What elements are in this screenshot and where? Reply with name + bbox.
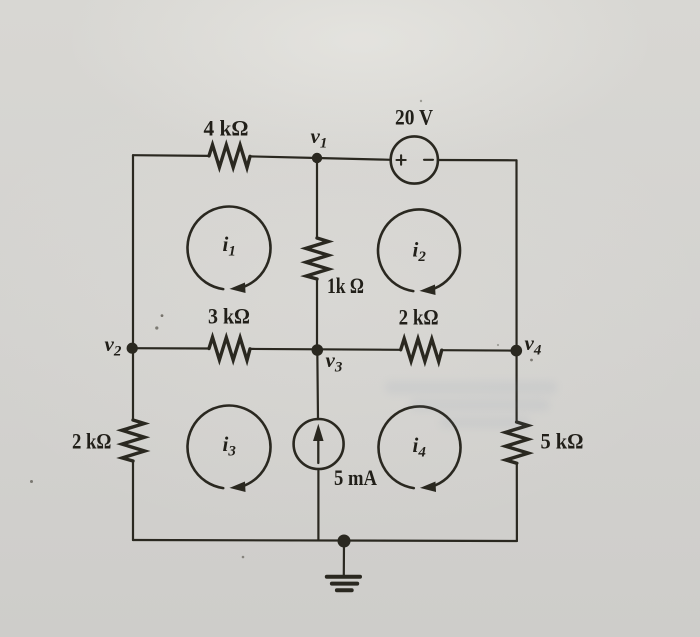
- mesh i1 arrowhead: [231, 283, 245, 292]
- mesh current loop i4 arc: [378, 406, 460, 488]
- paper speck: [530, 359, 533, 362]
- current source I1 circle: [294, 419, 344, 469]
- wire right vertical upper: [515, 160, 517, 422]
- minus sign inside source: [424, 159, 433, 161]
- ground stem: [343, 541, 345, 576]
- wire top middle: [250, 156, 317, 158]
- mesh i3 arrowhead: [231, 482, 245, 491]
- svg-text:v2: v2: [105, 332, 122, 360]
- svg-text:4 kΩ: 4 kΩ: [204, 115, 249, 140]
- resistor R 5k (right) zigzag: [505, 422, 528, 463]
- node v1 dot: [312, 153, 322, 163]
- paper speck: [30, 480, 33, 483]
- wire middle-left horizontal: [132, 347, 209, 349]
- svg-text:i3: i3: [223, 432, 237, 460]
- ground bar 3: [337, 588, 352, 592]
- ghost ink bleed-through: [385, 381, 557, 428]
- wire middle-right horizontal: [442, 349, 517, 352]
- wire middle center horizontal: [250, 348, 401, 351]
- ground bar 2: [332, 582, 357, 586]
- resistor R 1k zigzag: [306, 238, 329, 279]
- svg-text:5 kΩ: 5 kΩ: [541, 429, 584, 454]
- svg-text:2 kΩ: 2 kΩ: [399, 305, 439, 330]
- svg-text:v3: v3: [326, 348, 343, 376]
- plus sign inside source: [397, 155, 406, 164]
- wire v3 to current source: [316, 350, 319, 419]
- paper speck: [420, 100, 422, 102]
- paper speck: [155, 326, 158, 329]
- wire top-left horizontal: [133, 154, 209, 157]
- ground bar 1: [327, 575, 360, 579]
- mesh i2 arrowhead: [421, 285, 435, 294]
- mesh i4 arrowhead: [422, 482, 436, 491]
- paper speck: [242, 556, 245, 559]
- resistor R 2k (left) zigzag: [122, 420, 145, 461]
- wire current source to bottom: [317, 469, 319, 540]
- svg-text:i2: i2: [413, 238, 427, 266]
- wire left vertical: [132, 155, 134, 420]
- svg-text:v4: v4: [525, 331, 542, 359]
- node v3 dot: [312, 344, 324, 356]
- resistor R 4k zigzag: [209, 145, 250, 168]
- wire 1k to v3: [316, 279, 318, 350]
- svg-text:2 kΩ: 2 kΩ: [72, 429, 112, 454]
- node v4 dot: [511, 345, 523, 357]
- wire right vertical lower: [516, 463, 518, 541]
- wire source to top-right corner: [438, 159, 517, 162]
- wire v1 to 20V source: [317, 158, 391, 160]
- mesh current loop i3 arc: [187, 406, 270, 489]
- current source arrow: [317, 439, 319, 463]
- mesh current loop i2 arc: [378, 209, 460, 291]
- svg-text:20 V: 20 V: [395, 105, 433, 130]
- mesh current loop i1 arc: [187, 207, 270, 290]
- paper speck: [161, 314, 164, 317]
- wire middle vertical upper (v1 to 1k): [316, 158, 318, 238]
- svg-text:i1: i1: [223, 232, 236, 260]
- wire left vertical lower: [132, 461, 134, 540]
- resistor R 2k (middle-right) zigzag: [401, 339, 442, 362]
- svg-text:v1: v1: [311, 124, 328, 152]
- svg-text:i4: i4: [413, 433, 427, 461]
- node v2 dot: [127, 343, 138, 354]
- paper speck: [497, 344, 499, 346]
- svg-text:3 kΩ: 3 kΩ: [208, 304, 250, 329]
- ground node dot: [338, 535, 351, 548]
- svg-text:5 mA: 5 mA: [334, 465, 377, 490]
- wire bottom horizontal: [133, 540, 517, 541]
- voltage source U1 20V circle: [391, 136, 438, 183]
- resistor R 3k zigzag: [209, 337, 250, 360]
- svg-text:1k Ω: 1k Ω: [327, 273, 364, 298]
